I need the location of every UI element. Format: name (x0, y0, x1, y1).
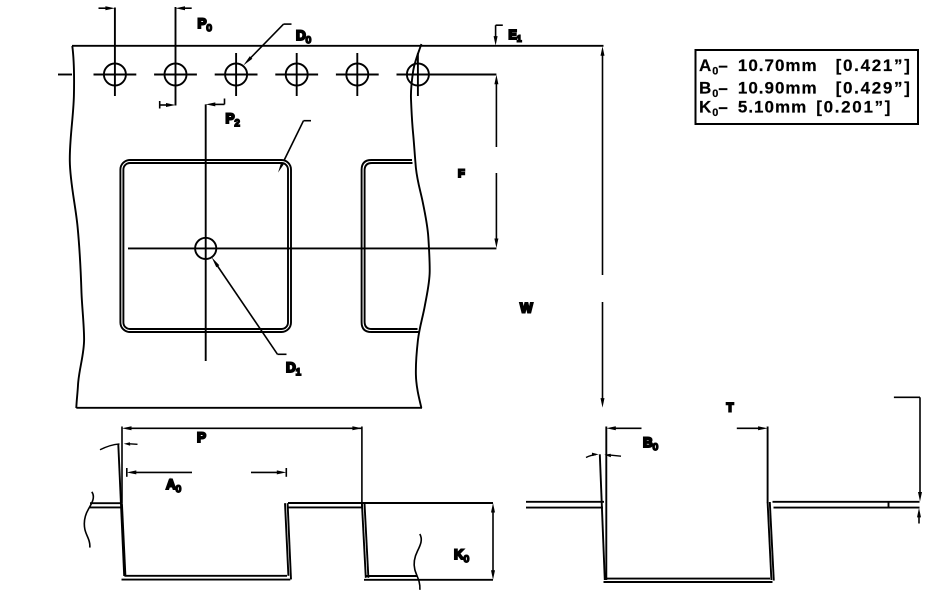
pocket 2 inner outline (365, 163, 418, 329)
svg-text:P2: P2 (226, 111, 240, 129)
sprocket hole 5 (336, 53, 379, 96)
svg-text:D1: D1 (286, 360, 301, 378)
left flange (right section) (526, 501, 604, 503)
sprocket hole 2 (154, 7, 197, 106)
dimension W (601, 46, 605, 407)
sprocket hole 3 (215, 53, 258, 96)
left flange (left section) (90, 502, 121, 504)
pocket 1 inner outline (123, 163, 288, 329)
dimension E1 (494, 25, 503, 45)
right flange (right section) (773, 501, 920, 503)
pocket 1 horizontal centerline (128, 247, 496, 249)
dimension T (894, 397, 922, 523)
tape break squiggle left (84, 492, 93, 548)
pocket wall draft line (left section) (118, 445, 124, 577)
tape left break edge (70, 46, 84, 408)
svg-text:K0: K0 (454, 547, 469, 565)
mid flange lower line (left section) (288, 506, 362, 508)
pocket 1 vertical centerline (205, 104, 207, 361)
tape break squiggle (left section, pocket 2) (414, 534, 421, 590)
pocket 1 left wall (left section) (122, 503, 126, 576)
pocket 1 right wall (left section) (285, 503, 288, 576)
svg-text:A0: A0 (166, 477, 181, 495)
svg-text:P: P (197, 430, 206, 445)
pocket 2 bottom (left section) (367, 575, 418, 577)
svg-text:W: W (520, 301, 533, 316)
pocket 1 outer outline (120, 160, 291, 332)
dimensions table box (696, 50, 919, 124)
leader to pocket corner (278, 121, 311, 173)
svg-text:P0: P0 (198, 16, 212, 34)
draft angle indicator right (586, 453, 621, 458)
pocket 2 outer outline (362, 160, 419, 332)
dimension P2 (160, 99, 225, 109)
B0 extension / inner walls (right section) (605, 427, 607, 581)
leader D0 (243, 24, 291, 65)
draft angle indicator left (100, 442, 138, 449)
dimension B0 (606, 426, 767, 430)
svg-text:E1: E1 (509, 28, 522, 44)
sprocket hole 4 (275, 53, 318, 96)
sprocket hole 6 (397, 53, 497, 96)
svg-text:F: F (458, 168, 465, 180)
svg-text:T: T (727, 403, 734, 415)
pocket wall draft line (right section) (600, 454, 605, 580)
pocket right wall draft line (right section) (770, 502, 774, 581)
svg-text:B0–10.90mm[0.429”]: B0–10.90mm[0.429”] (699, 78, 912, 100)
svg-text:D0: D0 (296, 28, 311, 46)
dimension F (494, 75, 498, 248)
leader D1 (212, 257, 287, 354)
pocket bottom (right section) (605, 578, 770, 580)
sprocket hole 1 (94, 8, 137, 97)
svg-text:K0–5.10mm[0.201”]: K0–5.10mm[0.201”] (699, 98, 892, 120)
dimension K0 (491, 503, 495, 580)
dimension A0 (127, 468, 286, 477)
pocket 2 left wall (left section) (362, 503, 366, 578)
dimension P (pitch) (122, 426, 362, 508)
svg-text:B0: B0 (643, 435, 658, 453)
pocket 1 center hole D1 (195, 238, 216, 259)
pocket 1 bottom (left section) (124, 575, 287, 577)
tape right break edge (411, 44, 430, 408)
tape surface line to K0 (left section) (288, 502, 493, 504)
svg-text:A0–10.70mm[0.421”]: A0–10.70mm[0.421”] (699, 56, 912, 78)
tape end tick (right flange) (888, 502, 890, 508)
sprocket centerline tick at tape edge (58, 74, 72, 76)
dimension P0 (99, 6, 192, 10)
tape bottom edge (76, 407, 422, 409)
tape top edge (72, 45, 604, 47)
